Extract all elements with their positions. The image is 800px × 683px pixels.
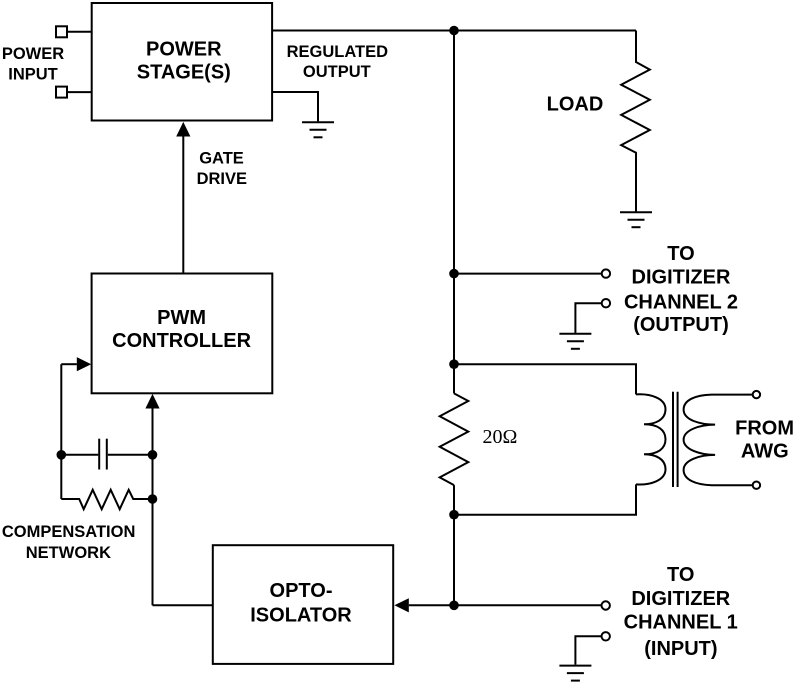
svg-text:REGULATED: REGULATED	[287, 43, 389, 61]
ground (power stage return)	[302, 122, 334, 137]
svg-text:INPUT: INPUT	[8, 65, 58, 83]
terminal circle channel 1 signal	[602, 601, 610, 609]
svg-text:AWG: AWG	[741, 441, 789, 463]
svg-text:LOAD: LOAD	[547, 94, 604, 116]
svg-text:CONTROLLER: CONTROLLER	[112, 330, 251, 352]
block PWM CONTROLLER	[92, 274, 273, 394]
wire power stage return to ground	[272, 92, 318, 121]
terminal circle AWG bottom	[753, 482, 760, 489]
block OPTO-ISOLATOR	[213, 545, 393, 664]
wire J2 to power stage	[67, 91, 92, 93]
svg-text:CHANNEL 1: CHANNEL 1	[624, 612, 738, 634]
wire channel 2 ground lead	[575, 303, 601, 333]
transformer T1 primary winding	[636, 394, 666, 484]
wire regulated output (top rail)	[272, 30, 636, 32]
wire J1 to power stage	[67, 31, 92, 33]
node: channel 2 tap junction	[449, 269, 459, 279]
wire into opto from bus	[409, 604, 454, 606]
svg-text:STAGE(S): STAGE(S)	[137, 62, 231, 84]
label TO DIGITIZER CHANNEL 1 (INPUT)	[624, 564, 738, 660]
svg-text:TO: TO	[667, 564, 694, 586]
svg-text:CHANNEL 2: CHANNEL 2	[624, 292, 738, 314]
svg-text:PWM: PWM	[157, 307, 206, 329]
terminal square J2 (power input -)	[56, 87, 67, 98]
transformer T1 secondary winding	[684, 395, 753, 486]
wire feedback vertical	[152, 408, 154, 605]
node: resistor right junction	[148, 494, 158, 504]
node: injection bottom junction	[449, 510, 459, 520]
transformer T1 core	[673, 392, 678, 487]
svg-text:NETWORK: NETWORK	[26, 544, 111, 562]
terminal circle channel 2 ground	[602, 299, 610, 307]
arrowhead into PWM	[77, 357, 91, 371]
ground (channel 1)	[559, 666, 591, 681]
label TO DIGITIZER CHANNEL 2 (OUTPUT)	[624, 243, 738, 336]
wire feedback to opto	[153, 604, 213, 606]
node: capacitor right junction	[148, 450, 158, 460]
wire compensation left leg	[60, 364, 62, 499]
svg-text:POWER: POWER	[2, 45, 64, 63]
svg-text:DIGITIZER: DIGITIZER	[631, 588, 730, 610]
svg-text:COMPENSATION: COMPENSATION	[2, 523, 136, 541]
ground (channel 2)	[559, 334, 591, 349]
node: capacitor left junction	[57, 450, 67, 460]
resistor 20 ohm	[440, 393, 469, 485]
node: output junction at top rail	[449, 26, 459, 36]
svg-text:20Ω: 20Ω	[483, 426, 518, 448]
svg-text:(OUTPUT): (OUTPUT)	[633, 314, 729, 336]
wire to digitizer channel 1	[454, 604, 601, 606]
capacitor C1 plates	[99, 439, 107, 470]
svg-text:FROM: FROM	[735, 417, 794, 439]
node: channel 1 junction	[449, 601, 459, 611]
wire to digitizer channel 2	[454, 273, 601, 275]
svg-text:POWER: POWER	[146, 38, 222, 60]
svg-text:OPTO-: OPTO-	[270, 580, 333, 602]
svg-text:DRIVE: DRIVE	[197, 170, 247, 188]
wire main bus (lower)	[453, 485, 455, 605]
svg-text:DIGITIZER: DIGITIZER	[632, 267, 731, 289]
wire main bus (upper)	[453, 31, 455, 394]
svg-text:TO: TO	[667, 243, 694, 265]
block POWER STAGE(S)	[92, 3, 272, 121]
wire injection top to transformer	[454, 364, 636, 394]
ground (load)	[620, 212, 652, 227]
terminal circle AWG top	[753, 391, 760, 398]
wire gate drive	[182, 137, 184, 274]
resistor LOAD	[621, 31, 650, 212]
wire injection bottom to transformer	[454, 484, 636, 514]
svg-text:(INPUT): (INPUT)	[644, 638, 717, 660]
svg-text:GATE: GATE	[199, 150, 244, 168]
node: injection top junction	[449, 359, 459, 369]
wire capacitor left lead	[61, 454, 98, 456]
terminal square J1 (power input +)	[56, 26, 67, 37]
wire channel 1 ground lead	[575, 636, 601, 664]
arrowhead into opto	[394, 598, 408, 612]
arrowhead gate drive	[176, 122, 190, 137]
arrowhead into PWM bottom	[145, 394, 159, 409]
wire capacitor right lead	[108, 454, 153, 456]
resistor R1 (compensation)	[61, 490, 152, 509]
terminal circle channel 2 signal	[602, 269, 610, 277]
svg-text:ISOLATOR: ISOLATOR	[250, 605, 352, 627]
terminal circle channel 1 ground	[602, 632, 610, 640]
svg-text:OUTPUT: OUTPUT	[303, 63, 371, 81]
wire feedback into PWM	[61, 363, 77, 365]
